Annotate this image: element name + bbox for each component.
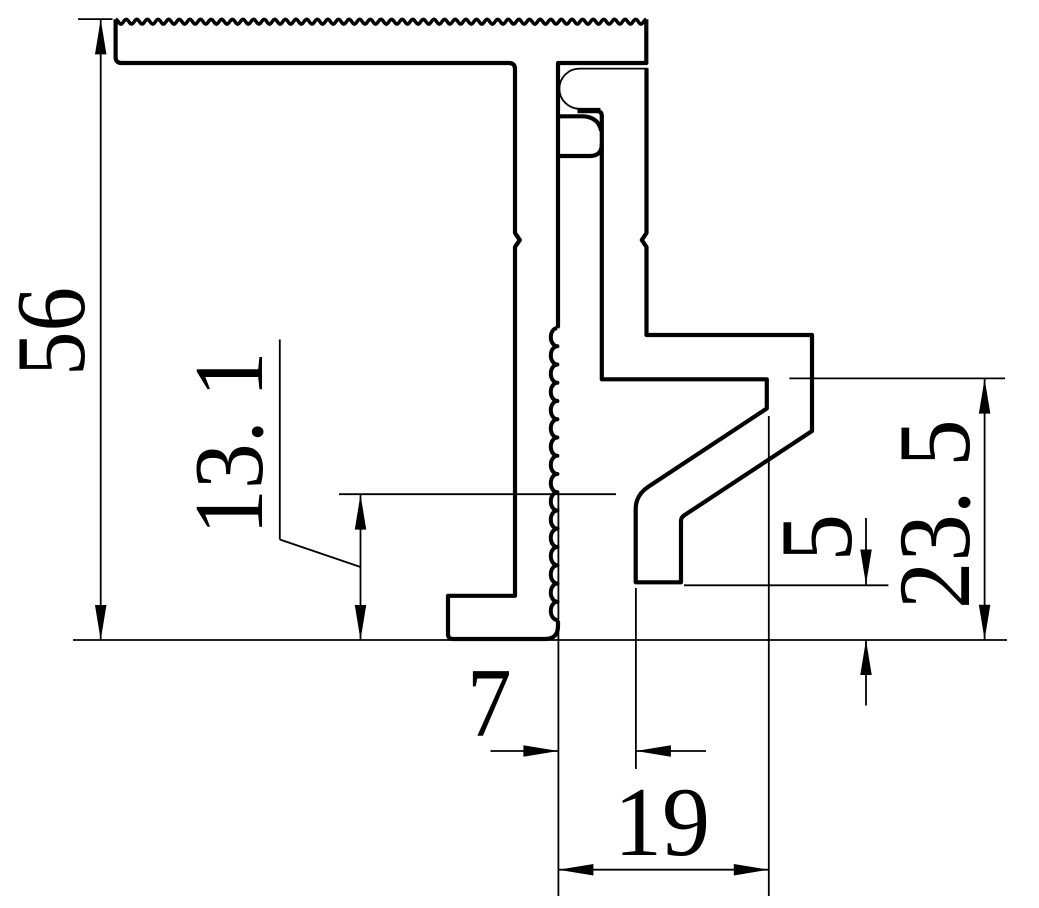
dim 5 line lower <box>865 640 867 706</box>
extension line x=636 <box>635 588 637 769</box>
arrow 5 upper <box>860 550 872 585</box>
dim 13.1 leader diagonal <box>280 540 361 568</box>
svg-text:5: 5 <box>761 514 874 562</box>
arrow 19 right <box>734 864 769 876</box>
arrow 56 bottom <box>95 605 107 640</box>
screw channel lower bottom <box>558 144 602 156</box>
dim 13.1 line <box>360 495 362 640</box>
dim 23.5 extension top <box>789 377 1005 379</box>
dim 19 line <box>558 869 768 871</box>
dim 5 line upper <box>865 518 867 585</box>
extension line x=769 <box>768 416 770 896</box>
profile: right wall, Z-arm and screw-channel wall <box>578 68 813 582</box>
dim 23.5 line <box>984 379 986 640</box>
arrow 23.5 bottom <box>979 605 991 640</box>
dim 7 line right <box>636 750 706 752</box>
arrow 13.1 top <box>355 495 367 530</box>
screw channel inner bottom <box>558 116 601 131</box>
dim 13.1 leader vertical <box>279 340 281 540</box>
arrow 5 lower <box>860 640 872 675</box>
arrow 13.1 bottom <box>355 605 367 640</box>
arrow 19 left <box>558 864 593 876</box>
profile: top flange with serrated top, web and foot <box>116 19 647 639</box>
dim 13.1 extension <box>339 493 616 495</box>
screw thread (thin line) <box>559 69 647 109</box>
arrow 23.5 top <box>979 379 991 414</box>
extension line x=558 <box>557 495 559 897</box>
dim 7 line left <box>491 750 559 752</box>
svg-text:13. 1: 13. 1 <box>174 351 284 535</box>
arrow 7 right <box>636 745 671 757</box>
svg-text:56: 56 <box>0 287 106 376</box>
dim 56 extension top <box>78 18 113 20</box>
svg-text:23. 5: 23. 5 <box>879 419 992 609</box>
dim 56 line <box>100 19 102 640</box>
serrated right edge of web <box>551 328 558 620</box>
arrow 56 top <box>95 19 107 54</box>
svg-text:19: 19 <box>614 768 710 878</box>
svg-text:7: 7 <box>467 649 512 758</box>
dim 5 extension <box>684 584 888 586</box>
arrow 7 left <box>523 745 558 757</box>
serrated top edge of flange <box>116 19 647 24</box>
baseline extension <box>73 639 1007 641</box>
